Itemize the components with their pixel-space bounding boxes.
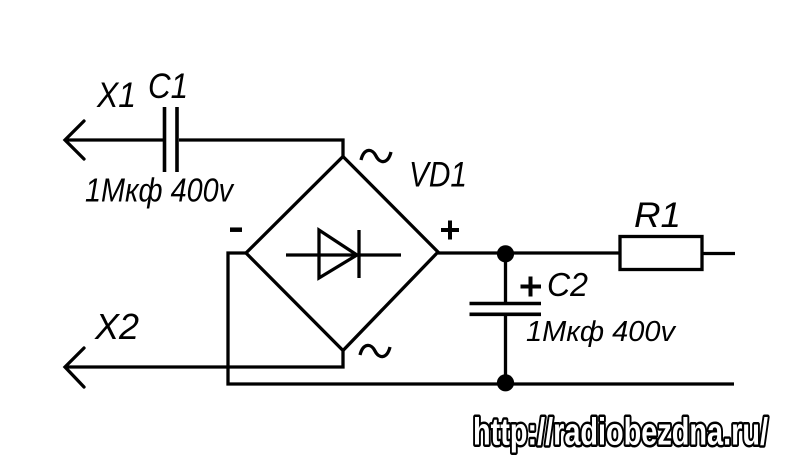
- svg-text:1Мкф 400v: 1Мкф 400v: [526, 316, 676, 348]
- svg-text:X2: X2: [94, 306, 139, 347]
- capacitor C2: [470, 304, 542, 315]
- svg-text:C2: C2: [547, 266, 588, 303]
- wire: [65, 351, 343, 368]
- polarity plus (C2): [521, 277, 542, 297]
- node junction top: [497, 245, 514, 262]
- wire: [228, 253, 734, 384]
- wire: [504, 253, 507, 302]
- diode bridge VD1: [246, 157, 438, 351]
- svg-text:VD1: VD1: [409, 156, 467, 195]
- AC mark ~ top: [361, 150, 391, 161]
- svg-text:C1: C1: [148, 67, 188, 106]
- resistor R1: [620, 237, 702, 270]
- wire: [65, 138, 163, 141]
- svg-text:X1: X1: [96, 76, 136, 115]
- wire: [702, 252, 735, 255]
- capacitor C1: [165, 107, 178, 172]
- AC mark ~ bottom: [360, 345, 390, 356]
- wire: [438, 251, 620, 254]
- polarity plus: [441, 221, 459, 240]
- polarity minus: [230, 227, 242, 232]
- wire: [504, 316, 507, 384]
- svg-text:1Мкф 400v: 1Мкф 400v: [85, 172, 235, 209]
- svg-text:http://radiobezdna.ru/: http://radiobezdna.ru/: [473, 412, 768, 454]
- terminal X1 arrow: [65, 121, 84, 159]
- node junction bottom: [497, 374, 514, 391]
- wire: [179, 140, 343, 157]
- terminal X2 arrow: [65, 348, 84, 387]
- svg-text:R1: R1: [634, 196, 681, 235]
- bridge diode symbol: [286, 230, 401, 278]
